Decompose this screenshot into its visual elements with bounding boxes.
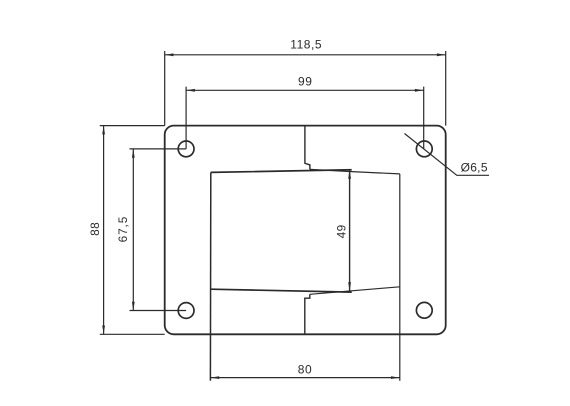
inner body left quad left edge + 80 extension left <box>209 172 211 380</box>
svg-text:118,5: 118,5 <box>290 37 322 51</box>
plate outline <box>165 126 446 335</box>
dim 99 extension lines <box>186 87 424 149</box>
dim 49 arrows <box>348 170 351 291</box>
hole bottom-left <box>178 303 194 319</box>
dim 80 line <box>210 377 399 379</box>
dim 80 arrows <box>210 376 399 379</box>
seam top <box>305 126 310 169</box>
svg-text:Ø6,5: Ø6,5 <box>461 161 488 175</box>
inner body right quad <box>310 169 400 294</box>
dim 99 arrows <box>186 89 424 92</box>
dim 99 line <box>186 89 424 91</box>
dim 118,5 line <box>165 54 446 56</box>
svg-text:88: 88 <box>88 222 102 236</box>
hole top-right <box>416 141 432 157</box>
hole top-left <box>178 141 194 157</box>
seam bottom <box>305 294 310 334</box>
svg-text:67,5: 67,5 <box>116 216 130 243</box>
svg-text:80: 80 <box>298 362 312 376</box>
dim 67,5 extension lines <box>130 149 187 311</box>
svg-text:99: 99 <box>298 74 312 88</box>
hole bottom-right <box>416 302 432 318</box>
dim 118,5 extension lines <box>165 51 446 126</box>
dim 118,5 arrows <box>165 53 446 56</box>
dim 88 extension lines <box>100 126 165 335</box>
inner body right quad right edge + 80 extension right <box>399 174 401 381</box>
dim 67,5 arrows <box>132 149 135 311</box>
inner body left quad <box>211 170 352 292</box>
dim 49 line <box>349 170 351 291</box>
dim 67,5 line <box>132 149 134 311</box>
dim 88 arrows <box>102 126 105 335</box>
dim 88 line <box>103 126 105 335</box>
svg-text:49: 49 <box>334 224 348 238</box>
leader diameter 6,5 <box>405 134 490 176</box>
